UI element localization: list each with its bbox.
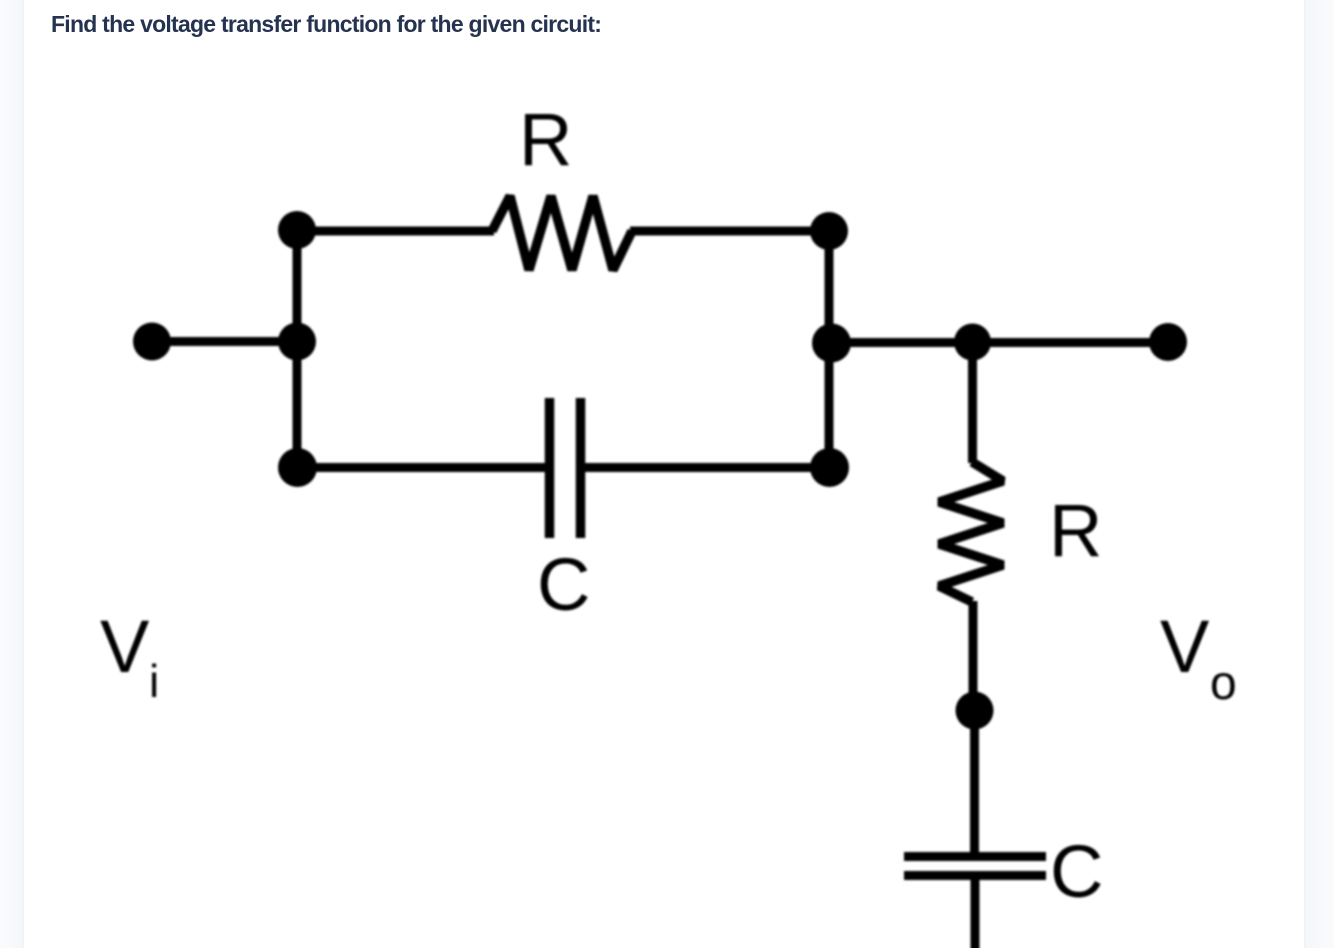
wire right vertical bus [825,231,834,468]
resistor R (right, vertical) [939,462,1003,602]
wire top-left horizontal to resistor R [297,227,494,236]
capacitor C (bottom branch, horizontal plates) [904,857,1046,876]
wire branch vertical lower (resistor R to node) [969,601,978,710]
node Vo output terminal [1149,323,1187,361]
capacitor C (bottom of parallel pair, vertical plates) [550,398,581,538]
svg-text:C: C [537,543,590,626]
wire left vertical bus [293,230,302,468]
wire node to capacitor C top plate [970,710,979,860]
node junction right mid [812,324,851,363]
node junction left mid [278,323,316,361]
node Vi input terminal [133,323,171,361]
node junction bottom-right [810,448,849,487]
svg-text:o: o [1210,657,1237,710]
wire below capacitor C running off bottom edge [971,876,980,948]
wire bottom-left horizontal to capacitor C [297,463,549,472]
svg-text:R: R [1049,489,1102,572]
svg-text:R: R [519,98,572,181]
node junction top-left [278,211,316,249]
wire middle horizontal to Vo terminal [829,338,1168,347]
node junction branch top [954,324,991,361]
svg-text:C: C [1050,830,1103,913]
svg-text:V: V [1160,605,1210,688]
node junction top-right [810,212,848,250]
wire branch vertical upper (node to resistor R) [968,343,977,464]
wire bottom-right horizontal from capacitor C [581,463,829,472]
wire top-right horizontal from resistor R [630,227,829,236]
node junction bottom-left [278,448,317,487]
resistor R (top, horizontal) [492,196,632,270]
node junction branch above capacitor [956,692,994,730]
wire input lead from Vi terminal to left junction [152,337,297,346]
svg-text:V: V [100,605,150,688]
svg-text:i: i [149,655,159,707]
